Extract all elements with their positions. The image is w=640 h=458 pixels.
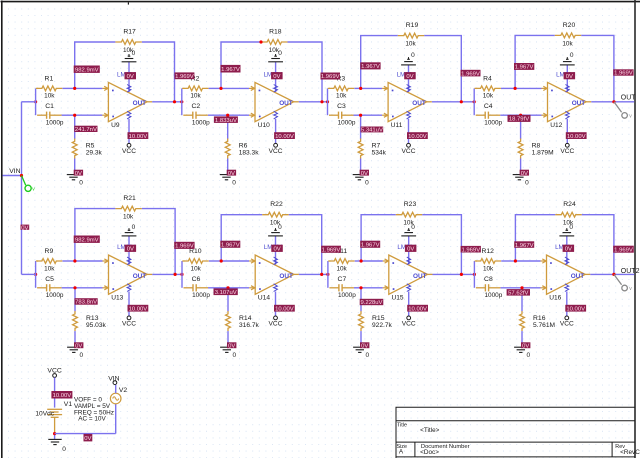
svg-text:Title: Title xyxy=(397,423,407,429)
svg-text:R9: R9 xyxy=(45,248,54,255)
svg-text:1.967V: 1.967V xyxy=(221,67,240,73)
svg-text:1.969V: 1.969V xyxy=(322,247,341,253)
svg-text:0V: 0V xyxy=(273,74,280,80)
svg-text:VCC: VCC xyxy=(560,148,574,155)
svg-text:A: A xyxy=(399,449,404,456)
svg-text:1.967V: 1.967V xyxy=(361,242,380,248)
svg-text:R6: R6 xyxy=(239,143,248,150)
svg-text:10k: 10k xyxy=(405,41,416,48)
svg-text:R12: R12 xyxy=(481,248,494,255)
svg-text:U15: U15 xyxy=(392,294,404,301)
svg-text:1000p: 1000p xyxy=(338,292,356,299)
svg-text:10k: 10k xyxy=(562,40,573,47)
svg-text:1000p: 1000p xyxy=(338,119,356,126)
svg-text:C2: C2 xyxy=(191,103,200,110)
svg-text:0V: 0V xyxy=(361,343,368,349)
svg-text:R20: R20 xyxy=(563,22,576,29)
svg-text:1000p: 1000p xyxy=(46,119,64,126)
svg-text:R22: R22 xyxy=(270,201,283,208)
svg-text:0: 0 xyxy=(79,179,83,186)
svg-text:0: 0 xyxy=(570,52,574,59)
svg-text:10Vdc: 10Vdc xyxy=(35,410,54,417)
svg-text:AC = 10V: AC = 10V xyxy=(78,416,106,423)
svg-text:OUT2: OUT2 xyxy=(621,268,640,275)
svg-text:1000p: 1000p xyxy=(192,292,210,299)
svg-text:0V: 0V xyxy=(84,436,91,442)
svg-text:VCC: VCC xyxy=(560,320,574,327)
svg-text:1000p: 1000p xyxy=(192,119,210,126)
svg-text:R17: R17 xyxy=(123,29,136,36)
svg-text:10.00V: 10.00V xyxy=(275,134,294,140)
svg-text:10k: 10k xyxy=(190,93,201,100)
svg-text:0: 0 xyxy=(525,179,529,186)
svg-text:10.00V: 10.00V xyxy=(408,306,427,312)
svg-text:10.00V: 10.00V xyxy=(275,306,294,312)
svg-text:1.967V: 1.967V xyxy=(515,243,534,249)
svg-text:R24: R24 xyxy=(563,201,576,208)
svg-text:C7: C7 xyxy=(338,276,347,283)
svg-text:OUT: OUT xyxy=(413,273,427,280)
svg-text:95.03k: 95.03k xyxy=(86,322,107,329)
svg-text:10k: 10k xyxy=(123,214,134,221)
svg-text:0: 0 xyxy=(411,224,415,231)
svg-text:VCC: VCC xyxy=(402,148,416,155)
svg-text:OUT: OUT xyxy=(412,100,426,107)
svg-text:1.969V: 1.969V xyxy=(175,74,194,80)
svg-text:0: 0 xyxy=(80,352,84,359)
svg-text:OUT: OUT xyxy=(279,100,293,107)
svg-text:1.969V: 1.969V xyxy=(461,71,480,77)
svg-text:10.00V: 10.00V xyxy=(129,134,148,140)
svg-text:5.341uV: 5.341uV xyxy=(361,128,383,134)
svg-text:0V: 0V xyxy=(273,247,280,253)
svg-text:10.00V: 10.00V xyxy=(567,134,586,140)
svg-text:0: 0 xyxy=(232,179,236,186)
svg-text:183.3k: 183.3k xyxy=(239,150,260,157)
svg-text:0V: 0V xyxy=(565,247,572,253)
svg-text:0: 0 xyxy=(278,224,282,231)
svg-text:OUT: OUT xyxy=(133,100,147,107)
svg-text:0: 0 xyxy=(527,352,531,359)
svg-text:U9: U9 xyxy=(111,122,120,129)
svg-text:V1: V1 xyxy=(64,401,73,408)
svg-text:0V: 0V xyxy=(406,74,413,80)
svg-text:0: 0 xyxy=(365,179,369,186)
svg-text:<Title>: <Title> xyxy=(420,427,440,434)
svg-text:C6: C6 xyxy=(192,276,201,283)
svg-text:R19: R19 xyxy=(406,22,419,29)
svg-text:0V: 0V xyxy=(21,225,28,231)
svg-text:10k: 10k xyxy=(191,265,202,272)
svg-text:1.967V: 1.967V xyxy=(515,65,534,71)
svg-text:1.969V: 1.969V xyxy=(175,244,194,250)
svg-text:783.8nV: 783.8nV xyxy=(75,300,97,306)
svg-text:1.969V: 1.969V xyxy=(614,71,633,77)
svg-text:C4: C4 xyxy=(484,103,493,110)
svg-text:U16: U16 xyxy=(549,294,561,301)
svg-text:1.967V: 1.967V xyxy=(361,64,380,70)
svg-text:OUT: OUT xyxy=(572,100,586,107)
svg-text:R14: R14 xyxy=(239,315,252,322)
svg-text:10k: 10k xyxy=(336,93,347,100)
svg-text:R4: R4 xyxy=(483,76,492,83)
svg-text:57.62fV: 57.62fV xyxy=(508,291,528,297)
svg-text:10k: 10k xyxy=(336,265,347,272)
svg-text:9.228uV: 9.228uV xyxy=(361,300,383,306)
svg-text:R15: R15 xyxy=(372,315,385,322)
svg-text:0V: 0V xyxy=(407,247,414,253)
svg-text:R8: R8 xyxy=(532,143,541,150)
svg-text:U14: U14 xyxy=(258,294,270,301)
svg-text:0V: 0V xyxy=(127,247,134,253)
svg-text:VCC: VCC xyxy=(402,320,416,327)
svg-text:0V: 0V xyxy=(228,171,235,177)
svg-text:C8: C8 xyxy=(484,276,493,283)
svg-text:10k: 10k xyxy=(483,265,494,272)
svg-text:0V: 0V xyxy=(127,74,134,80)
svg-text:0V: 0V xyxy=(75,171,82,177)
svg-text:<Doc>: <Doc> xyxy=(420,449,439,456)
svg-text:VIN: VIN xyxy=(108,375,119,382)
svg-text:10.00V: 10.00V xyxy=(129,306,148,312)
svg-text:10k: 10k xyxy=(44,93,55,100)
svg-text:0: 0 xyxy=(366,352,370,359)
svg-text:10k: 10k xyxy=(483,93,494,100)
svg-text:0: 0 xyxy=(132,224,136,231)
svg-text:0: 0 xyxy=(132,50,136,57)
svg-text:0: 0 xyxy=(233,352,237,359)
svg-text:C3: C3 xyxy=(337,103,346,110)
svg-text:R13: R13 xyxy=(86,315,99,322)
svg-text:U11: U11 xyxy=(391,122,403,129)
svg-text:1.879M: 1.879M xyxy=(532,150,554,157)
svg-text:10k: 10k xyxy=(44,265,55,272)
svg-text:0V: 0V xyxy=(522,343,529,349)
svg-text:0: 0 xyxy=(278,50,282,57)
svg-text:316.7k: 316.7k xyxy=(239,322,260,329)
svg-text:0V: 0V xyxy=(566,74,573,80)
svg-text:10.00V: 10.00V xyxy=(53,393,72,399)
svg-text:1000p: 1000p xyxy=(484,119,502,126)
svg-text:0V: 0V xyxy=(75,343,82,349)
svg-text:C5: C5 xyxy=(45,276,54,283)
svg-text:534k: 534k xyxy=(372,150,387,157)
svg-text:5.761M: 5.761M xyxy=(533,322,555,329)
svg-text:922.7k: 922.7k xyxy=(372,322,393,329)
svg-text:VCC: VCC xyxy=(122,320,136,327)
svg-text:V2: V2 xyxy=(119,387,128,394)
svg-text:R7: R7 xyxy=(372,143,381,150)
svg-text:VCC: VCC xyxy=(269,320,283,327)
svg-text:982.9mV: 982.9mV xyxy=(75,67,99,73)
svg-text:R16: R16 xyxy=(533,315,546,322)
svg-text:29.3k: 29.3k xyxy=(86,150,103,157)
svg-text:U12: U12 xyxy=(550,122,562,129)
svg-text:OUT: OUT xyxy=(571,273,585,280)
svg-text:1000p: 1000p xyxy=(485,292,503,299)
svg-text:VIN: VIN xyxy=(9,168,20,175)
svg-text:1000p: 1000p xyxy=(46,292,64,299)
svg-text:1.969V: 1.969V xyxy=(614,247,633,253)
svg-text:R1: R1 xyxy=(45,76,54,83)
svg-text:<RevCode>: <RevCode> xyxy=(620,449,640,456)
svg-text:R5: R5 xyxy=(86,143,95,150)
svg-text:1.833uV: 1.833uV xyxy=(215,118,237,124)
svg-text:3.107uV: 3.107uV xyxy=(215,290,237,296)
svg-text:982.9mV: 982.9mV xyxy=(75,237,99,243)
svg-text:U10: U10 xyxy=(258,122,270,129)
svg-text:R21: R21 xyxy=(123,195,136,202)
svg-text:VCC: VCC xyxy=(122,148,136,155)
svg-text:VCC: VCC xyxy=(269,148,283,155)
svg-text:R23: R23 xyxy=(404,201,417,208)
svg-text:R18: R18 xyxy=(269,29,282,36)
svg-text:0V: 0V xyxy=(361,171,368,177)
svg-text:1.969V: 1.969V xyxy=(321,74,340,80)
svg-text:0V: 0V xyxy=(521,171,528,177)
svg-text:0: 0 xyxy=(411,52,415,59)
svg-text:OUT: OUT xyxy=(133,273,147,280)
svg-text:OUT: OUT xyxy=(621,95,637,102)
svg-text:10.00V: 10.00V xyxy=(408,134,427,140)
svg-text:241.7nV: 241.7nV xyxy=(75,127,97,133)
svg-text:1.967V: 1.967V xyxy=(221,242,240,248)
svg-text:0: 0 xyxy=(569,224,573,231)
svg-text:10.00V: 10.00V xyxy=(566,306,585,312)
svg-text:0V: 0V xyxy=(228,343,235,349)
svg-text:C1: C1 xyxy=(45,103,54,110)
svg-text:1.969V: 1.969V xyxy=(461,247,480,253)
svg-text:0: 0 xyxy=(62,446,66,453)
svg-text:18.79fV: 18.79fV xyxy=(509,117,529,123)
svg-text:OUT: OUT xyxy=(279,273,293,280)
svg-text:U13: U13 xyxy=(111,294,123,301)
